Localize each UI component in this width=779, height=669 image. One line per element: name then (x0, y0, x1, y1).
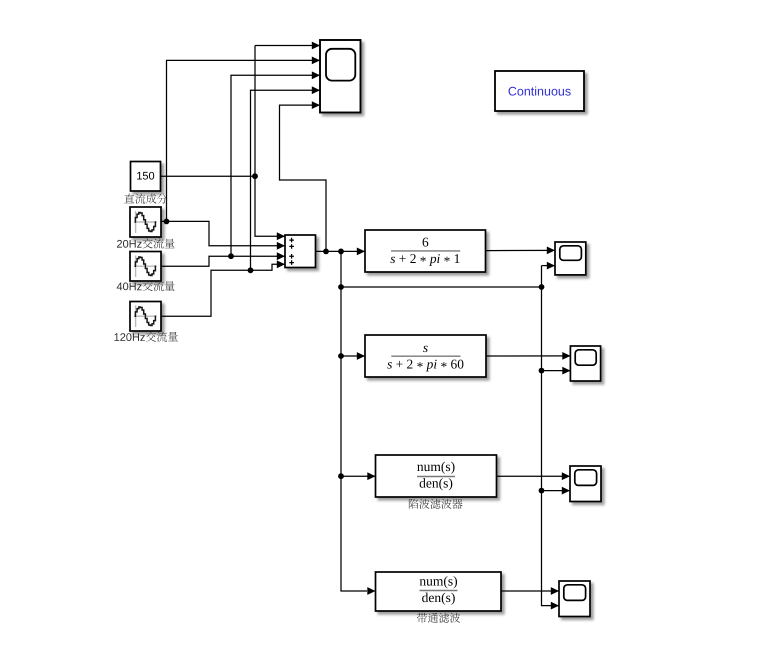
scope Scope (5-input) (320, 40, 361, 113)
scope Scope2 (570, 346, 600, 381)
arrowhead 6 (277, 252, 285, 260)
svg-text:s: s (423, 340, 428, 355)
arrowhead 11 (367, 587, 375, 595)
arrowhead 1 (312, 42, 320, 50)
label 带通滤波 (417, 613, 460, 623)
arrowhead 16 (562, 367, 570, 375)
label 20Hz交流量 (117, 238, 175, 248)
junction node 8 (338, 473, 344, 479)
arrowhead 15 (551, 602, 559, 610)
label 陷波滤波器 (409, 499, 463, 509)
arrowhead 17 (562, 487, 570, 495)
powergui block Continuous (495, 71, 584, 111)
junction node 1 (252, 173, 258, 179)
arrowhead 7 (312, 86, 320, 94)
label 40Hz交流量 (117, 281, 175, 291)
arrowhead 5 (312, 71, 320, 79)
arrowhead 20 (562, 472, 570, 480)
wire: Sine 20Hz output to node, up to Scope input 2, over to Sum input 2 (162, 221, 285, 245)
transfer function block 6/(s+2*pi*1) (365, 230, 486, 272)
arrowhead 4 (277, 242, 285, 250)
wire: Sum output to Transfer Fcn1, branch up to Scope input 5, branch down distribution column (316, 250, 365, 252)
sine wave source 40Hz交流量 (130, 252, 161, 282)
arrowhead 2 (277, 232, 285, 240)
arrowhead 19 (562, 352, 570, 360)
svg-text:6: 6 (422, 234, 429, 249)
junction node 7 (338, 353, 344, 359)
junction node 9 (338, 284, 344, 290)
junction node 5 (323, 249, 329, 255)
scope Scope1 (555, 242, 586, 275)
scope Scope3 (570, 466, 601, 502)
wire: right column branch to Scope2 second input (542, 370, 570, 372)
constant block 150 (直流成分) (131, 162, 161, 192)
wire: Transfer Fcn3 output to Scope3 input 1 (497, 475, 570, 477)
wire: Sine 120Hz output, up and over to Sum input 4, branch up to Scope input 4 (162, 264, 285, 316)
wire: Transfer Fcn1 output to Scope1 input 1 (486, 249, 555, 251)
arrowhead 21 (551, 587, 559, 595)
svg-text:num(s): num(s) (419, 573, 457, 588)
wire: right column branch to Scope3 second input (542, 490, 570, 492)
arrowhead 8 (277, 260, 285, 268)
label 直流成分 (124, 194, 167, 204)
junction node 11 (539, 368, 545, 374)
svg-text:150: 150 (136, 171, 154, 183)
arrowhead 12 (357, 352, 365, 360)
wire: distribution column branch to Transfer Fcn3 input (341, 475, 375, 477)
svg-text:Continuous: Continuous (508, 85, 571, 99)
label 120Hz交流量 (114, 332, 177, 342)
arrowhead 3 (312, 57, 320, 65)
scope Scope4 (559, 581, 590, 617)
wire: Constant 150 output to node, up to Scope input 1, down to Sum input 1 (161, 175, 255, 177)
junction node 4 (248, 267, 254, 273)
junction node 10 (539, 284, 545, 290)
arrowhead 9 (312, 101, 320, 109)
arrowhead 18 (547, 247, 555, 255)
sum block Add (4 inputs) (285, 235, 316, 268)
svg-text:den(s): den(s) (422, 590, 456, 605)
junction node 2 (164, 219, 170, 225)
transfer function block num(s)/den(s) 带通滤波 (band-pass filter) (376, 572, 502, 611)
arrowhead 13 (367, 472, 375, 480)
junction node 12 (539, 488, 545, 494)
wire: summed-signal branch across to right column feeding scope second inputs (341, 286, 542, 288)
wire: distribution column branch to Transfer Fcn2 input (341, 355, 365, 357)
transfer function block s/(s+2*pi*60) (365, 335, 486, 377)
arrowhead 10 (357, 248, 365, 256)
junction node 3 (228, 253, 234, 259)
sine wave source 20Hz交流量 (130, 207, 161, 237)
wire: Transfer Fcn2 output to Scope2 input 1 (487, 355, 570, 357)
transfer function block num(s)/den(s) 陷波滤波器 (notch filter) (376, 455, 497, 497)
svg-text:s + 2 * pi * 1: s + 2 * pi * 1 (390, 251, 460, 269)
svg-text:den(s): den(s) (419, 476, 453, 491)
sine wave source 120Hz交流量 (130, 302, 161, 332)
wire: Transfer Fcn4 output to Scope4 input 1 (502, 590, 559, 592)
junction node 6 (338, 249, 344, 255)
svg-text:s + 2 * pi * 60: s + 2 * pi * 60 (387, 356, 464, 374)
wire: Sine 40Hz output, up to Sum input 3, branch up to Scope input 3 (162, 256, 285, 266)
arrowhead 14 (547, 262, 555, 270)
svg-text:num(s): num(s) (417, 459, 455, 474)
